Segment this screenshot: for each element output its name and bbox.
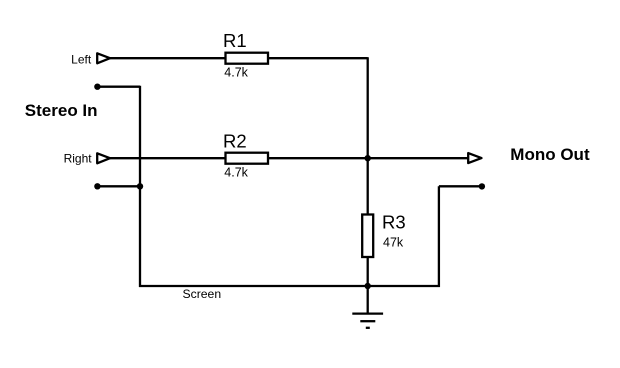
node screen junction dot [137, 183, 143, 189]
node Mono Out connector [468, 153, 481, 163]
node Right input connector [97, 153, 110, 163]
node left screen dot (upper) [94, 84, 100, 90]
svg-text:Mono Out: Mono Out [510, 145, 590, 164]
wire R3 to ground node [367, 257, 369, 286]
wire upper screen stub [97, 86, 140, 88]
node ground junction dot [365, 283, 371, 289]
svg-text:47k: 47k [383, 236, 404, 250]
svg-text:R2: R2 [223, 131, 247, 152]
ground [352, 286, 383, 328]
node Left input connector [97, 53, 110, 63]
wire R1 to top-right corner [268, 57, 368, 59]
svg-text:Stereo In: Stereo In [25, 101, 98, 120]
node output junction dot [365, 155, 371, 161]
wire R2 to output connector [268, 157, 468, 159]
svg-text:Screen: Screen [183, 287, 222, 301]
svg-text:R1: R1 [223, 30, 247, 51]
wire output node down to R3 [367, 158, 369, 215]
svg-text:Left: Left [71, 52, 92, 66]
wire right screen stub [439, 185, 482, 187]
wire right screen vertical [438, 186, 440, 287]
svg-text:Right: Right [64, 152, 93, 166]
svg-text:4.7k: 4.7k [224, 65, 248, 79]
node left screen dot (lower) [94, 183, 100, 189]
resistor R1 [226, 53, 269, 64]
wire lower screen stub [97, 185, 140, 187]
wire left screen vertical [139, 86, 141, 287]
resistor R3 [362, 215, 373, 258]
svg-text:4.7k: 4.7k [224, 165, 248, 179]
wire Left input to R1 [110, 57, 226, 59]
wire corner down to output node [367, 57, 369, 158]
wire screen bottom run [139, 285, 440, 287]
svg-text:R3: R3 [382, 212, 406, 233]
node output screen dot [479, 183, 485, 189]
resistor R2 [226, 153, 269, 164]
wire Right input to R2 [110, 157, 226, 159]
